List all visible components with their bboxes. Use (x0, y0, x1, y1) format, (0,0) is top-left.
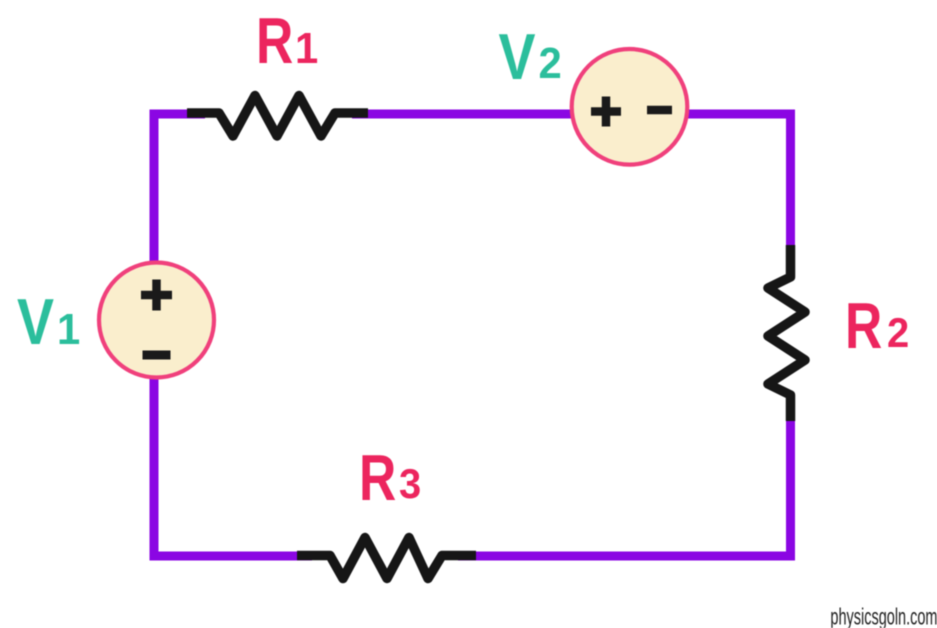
label V2 (499, 21, 562, 93)
label R2 (845, 291, 909, 363)
resistor R3 (297, 538, 476, 579)
svg-text:V: V (17, 286, 54, 358)
voltage source V1 (99, 263, 214, 378)
resistor R2 (768, 245, 805, 421)
svg-text:V: V (499, 21, 536, 93)
svg-text:R: R (359, 443, 396, 515)
label R3 (359, 443, 421, 515)
wire bottom-left segment (150, 552, 313, 561)
voltage source V2 (572, 49, 688, 165)
label V1 (17, 286, 80, 358)
wire top-right segment (352, 110, 795, 119)
wire bottom-right segment (458, 552, 795, 561)
svg-text:R: R (256, 6, 293, 78)
svg-text:1: 1 (57, 305, 80, 354)
wire right upper segment (786, 110, 795, 263)
wire right lower segment (786, 408, 795, 561)
svg-text:R: R (845, 291, 882, 363)
svg-text:physicsgoln.com: physicsgoln.com (830, 605, 937, 628)
label R1 (256, 6, 318, 78)
wire top-left segment (150, 110, 205, 119)
svg-text:1: 1 (295, 24, 318, 73)
svg-text:3: 3 (399, 460, 421, 507)
resistor R1 (187, 96, 368, 137)
svg-text:2: 2 (887, 309, 909, 356)
svg-text:2: 2 (539, 39, 562, 88)
wire left segment (150, 110, 159, 561)
